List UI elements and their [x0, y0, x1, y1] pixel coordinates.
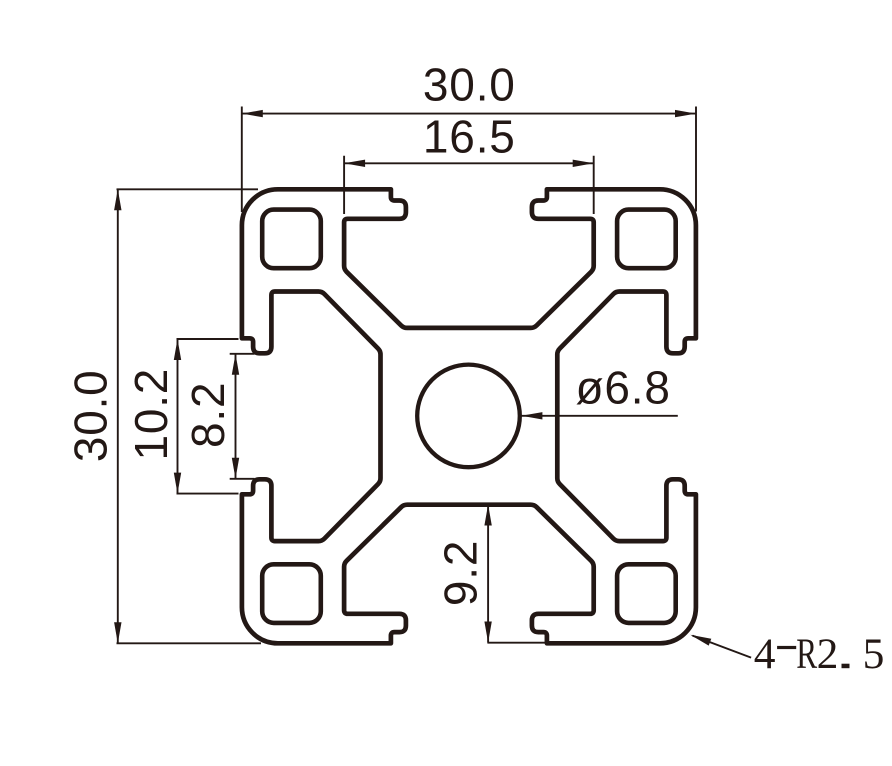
- leader line for corner radius note: [693, 636, 752, 658]
- dimension 30.0 left: extension lines: [117, 189, 262, 643]
- dimension 8.2: dimension line: [235, 354, 237, 479]
- dimension 9.2: extension line: [487, 642, 550, 644]
- svg-text:4: 4: [754, 630, 776, 678]
- dimension 16.5: dimension line: [344, 162, 594, 164]
- svg-text:30.0: 30.0: [423, 59, 516, 111]
- svg-text:ø6.8: ø6.8: [576, 362, 671, 414]
- svg-text:2: 2: [817, 630, 839, 678]
- dimension 16.5: extension lines: [344, 156, 594, 214]
- top-right corner square hole: [617, 210, 676, 269]
- svg-text:5: 5: [863, 630, 885, 678]
- dimension 10.2: dimension line: [177, 339, 179, 494]
- dimension 30.0 top: extension lines: [242, 107, 696, 213]
- svg-text:8.2: 8.2: [182, 382, 234, 448]
- top-left corner square hole: [262, 210, 321, 269]
- svg-text:9.2: 9.2: [435, 540, 487, 606]
- svg-text:16.5: 16.5: [423, 111, 516, 163]
- dimension 30.0 top: arrowheads: [242, 110, 263, 117]
- bottom-left corner square hole: [262, 564, 321, 623]
- dimension 10.2: arrowheads: [174, 339, 181, 360]
- dimension 9.2: dimension line: [487, 505, 489, 643]
- dimension 9.2: arrowheads: [484, 505, 491, 526]
- leader arrowhead pointing at corner: [690, 635, 711, 646]
- dimension 8.2: arrowheads: [232, 354, 239, 375]
- leader arrowhead pointing at circle: [521, 412, 542, 419]
- dimension 8.2: extension lines: [230, 354, 255, 479]
- dimension 30.0 left: dimension line: [117, 189, 119, 643]
- dimension 16.5: arrowheads: [344, 160, 365, 167]
- bottom-right corner square hole: [617, 564, 676, 623]
- svg-text:10.2: 10.2: [125, 368, 177, 461]
- leader line for center hole diameter: [521, 415, 677, 417]
- dimension 30.0 top: dimension line: [242, 113, 696, 115]
- center hole circle diameter 6.8: [417, 365, 520, 468]
- dimension 30.0 left: arrowheads: [114, 189, 121, 210]
- svg-text:30.0: 30.0: [64, 369, 116, 462]
- outer profile outline of 30x30 aluminium extrusion: [242, 189, 696, 643]
- svg-text:R: R: [796, 630, 817, 678]
- dimension 10.2: extension lines: [177, 339, 239, 494]
